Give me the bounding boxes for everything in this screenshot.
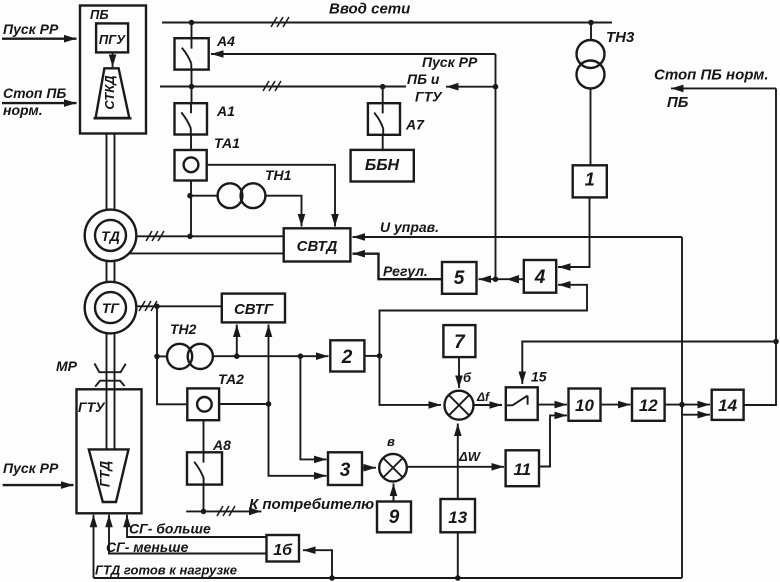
node: junction K potrebitelyu — [201, 509, 207, 515]
svg-text:норм.: норм. — [3, 102, 43, 118]
wire: block14 output up right edge to Stop PB arrow — [744, 88, 776, 405]
shaft TG to GTU box — [107, 333, 115, 449]
wire: TH2 line to block2 — [213, 355, 329, 357]
wire: vertical x495 down to 5/4 line — [495, 54, 497, 279]
node: junction top bus / A4 column — [189, 20, 195, 26]
svg-text:Стоп ПБ: Стоп ПБ — [3, 85, 66, 101]
svg-text:1б: 1б — [273, 542, 293, 559]
svg-text:ПБ: ПБ — [90, 7, 109, 22]
svg-text:7: 7 — [454, 332, 466, 353]
node: junction TH2 line / SVTG arm — [234, 353, 240, 359]
svg-text:СВТГ: СВТГ — [234, 301, 274, 318]
wire: TD to SVTD upper line — [136, 235, 284, 237]
wire: 3-phase slashes on second bus — [263, 81, 281, 91]
svg-text:ГТУ: ГТУ — [415, 89, 443, 105]
turbine GTD (trapezoid) — [89, 449, 129, 502]
box PB (outer unit) — [80, 6, 146, 134]
svg-text:А7: А7 — [405, 117, 425, 133]
wire: SG menshe line + arrow2 — [109, 515, 267, 554]
node: junction block2 output x379.5 — [377, 353, 383, 359]
svg-text:А8: А8 — [212, 437, 231, 453]
svg-text:9: 9 — [389, 507, 400, 528]
wire: Pusk RR arrow bottom — [3, 484, 74, 486]
svg-text:ТГ: ТГ — [102, 300, 121, 316]
current transformer TA2 — [187, 388, 219, 420]
wire: vertical x157 TG to TA2 — [157, 306, 187, 404]
node: junction TG line / x157 — [154, 304, 160, 310]
svg-text:3: 3 — [340, 460, 351, 481]
svg-text:12: 12 — [639, 396, 658, 415]
wire: second bus — [160, 86, 406, 88]
node: junction TA2 output — [266, 401, 272, 407]
svg-text:в: в — [387, 434, 395, 449]
wire: slashes K potrebitelyu — [217, 506, 235, 516]
svg-text:МР: МР — [56, 358, 78, 374]
transformer TH3 — [577, 23, 605, 166]
svg-text:СТКД: СТКД — [102, 75, 117, 110]
svg-text:СВТД: СВТД — [297, 238, 338, 255]
node: junction x495 on 4-5 line — [493, 276, 499, 282]
wire: U uprav line into SVTD — [353, 236, 683, 238]
svg-text:U управ.: U управ. — [380, 219, 439, 235]
block PGU — [96, 23, 128, 52]
svg-text:Пуск РР: Пуск РР — [3, 21, 59, 37]
shaft TD to TG — [107, 261, 115, 282]
wire: block13 bottom to bus — [457, 532, 459, 578]
block 9 — [377, 502, 411, 533]
node: junction right edge / block15 feed — [773, 339, 779, 345]
wire: block12 to block14 — [665, 404, 710, 406]
wire: bottom bus — [94, 577, 683, 579]
wire: x300 down to block3 upper input — [300, 356, 326, 459]
svg-text:СГ- больше: СГ- больше — [129, 521, 211, 537]
node: junction x682 on 12-14 line — [679, 402, 685, 408]
wire: feedback from x379.5 to block4 lower input — [380, 285, 588, 356]
wire: summer b output Δf to block15 — [474, 404, 503, 406]
wire: x379.5 down to summer b left input — [380, 356, 442, 405]
wire: block16 right input from bus — [303, 550, 332, 578]
svg-text:15: 15 — [531, 369, 547, 385]
wire: A4 column vertical segments — [190, 23, 193, 237]
node: junction TH2 line / x300 — [298, 353, 304, 359]
svg-text:К потребителю: К потребителю — [249, 496, 374, 513]
wire: bus up arrow1 into GTU box — [93, 515, 95, 578]
wire: block1 to block4 upper input — [558, 197, 590, 267]
svg-text:Δf: Δf — [476, 390, 490, 404]
svg-text:ББН: ББН — [365, 157, 400, 174]
voltage transformer TH2 — [157, 344, 213, 369]
wire: TA2 output to x268.5 — [219, 403, 268, 405]
svg-text:Ввод сети: Ввод сети — [329, 1, 410, 18]
coupling MR — [95, 364, 126, 387]
node: junction TD line / TA1 column — [187, 234, 193, 240]
svg-text:ПБ: ПБ — [667, 94, 689, 111]
svg-text:ГТУ: ГТУ — [78, 399, 106, 415]
node: junction x157 / TH2 — [154, 354, 160, 360]
svg-text:Регул.: Регул. — [383, 263, 428, 279]
box GTU — [77, 389, 142, 513]
svg-text:10: 10 — [575, 396, 594, 415]
svg-text:ТН3: ТН3 — [606, 29, 635, 46]
svg-text:5: 5 — [454, 268, 465, 289]
wire: summer v output ΔW to block11 — [407, 466, 504, 468]
svg-text:ГТД готов к нагрузке: ГТД готов к нагрузке — [95, 563, 237, 578]
block 5 — [442, 262, 477, 294]
svg-text:Пуск РР: Пуск РР — [3, 460, 59, 476]
motor TD — [85, 210, 137, 262]
wire: x268.5 down to block3 lower input — [269, 404, 327, 476]
wire: Stop PB arrow from right edge vertical — [671, 87, 776, 89]
node: junction second bus / A1 column — [189, 84, 195, 90]
svg-text:ПГУ: ПГУ — [99, 32, 126, 47]
wire: block2 output — [364, 355, 379, 357]
wire: K potrebitelyu arrow — [186, 510, 261, 512]
node: junction x495 second-bus arrow — [493, 84, 499, 90]
svg-text:13: 13 — [448, 508, 467, 527]
wire: arrow up into SVTG left — [236, 325, 238, 357]
wire: 3-phase slashes on top bus — [271, 17, 289, 27]
wire: block15 output to block10 — [538, 404, 567, 406]
block 12 — [632, 389, 665, 421]
block 11 — [506, 450, 539, 486]
generator TG — [85, 282, 137, 334]
summer v (circle with X) — [379, 454, 407, 482]
wire: block13 up into summer b — [457, 424, 459, 500]
block 14 — [712, 390, 744, 420]
block BBN — [351, 150, 414, 182]
block 16 — [267, 535, 300, 562]
svg-text:14: 14 — [718, 396, 737, 415]
svg-text:ТН2: ТН2 — [170, 321, 197, 337]
block SVTG — [222, 294, 285, 323]
node: junction bus / block16 feed — [329, 575, 335, 581]
block 13 — [441, 499, 476, 532]
block 10 — [569, 389, 601, 421]
shaft PB box to TD — [107, 134, 115, 210]
wire: SG bolshe line + arrow3 — [127, 515, 267, 537]
node: junction top bus / TH3 — [588, 20, 594, 26]
wire: Pusk RR arrow top — [2, 38, 77, 40]
block 15 (relay contact) — [506, 387, 538, 420]
svg-text:б: б — [463, 370, 472, 385]
svg-text:ТА2: ТА2 — [218, 371, 244, 387]
wire: TH1 output to SVTD top — [265, 196, 301, 227]
svg-text:11: 11 — [513, 460, 531, 479]
wire: 3-phase slashes TD line — [146, 231, 164, 241]
wire: TG to SVTG — [136, 305, 222, 307]
wire: block11 output to block10 lower input — [539, 415, 567, 466]
wire: block10 to block12 — [601, 404, 631, 406]
block 2 — [330, 340, 364, 371]
svg-text:ГТД: ГТД — [98, 461, 113, 488]
svg-text:А1: А1 — [216, 103, 235, 119]
wire: arrow "Пуск РР ПБ и ГТУ" pointing left — [446, 86, 496, 88]
wire: block4 to block5 with two arrowheads — [479, 275, 524, 283]
svg-text:ТД: ТД — [101, 228, 120, 244]
block SVTD — [284, 228, 351, 261]
svg-text:ТН1: ТН1 — [265, 167, 292, 183]
svg-text:А4: А4 — [216, 33, 235, 49]
wire: top bus "Ввод сети" — [162, 22, 612, 24]
current transformer TA1 — [175, 150, 207, 181]
wire: branch into block14 lower input — [682, 414, 710, 416]
wire: arrow into A4 from vertical x495 — [211, 53, 496, 55]
node: junction bus / block13 — [455, 575, 461, 581]
wire: PGU down arrow to STKD — [112, 52, 114, 67]
block 7 — [443, 325, 475, 357]
breaker A7 — [368, 84, 400, 150]
block 1 — [573, 165, 607, 197]
svg-text:1: 1 — [585, 170, 595, 190]
svg-text:СГ- меньше: СГ- меньше — [106, 539, 189, 555]
svg-text:2: 2 — [341, 347, 353, 368]
svg-text:ТА1: ТА1 — [214, 135, 240, 151]
breaker A8 — [187, 420, 222, 511]
breaker A1 — [175, 103, 208, 134]
wire: Regul line block5 to SVTD — [353, 254, 443, 280]
wire: block3 output into summer v — [362, 467, 376, 469]
wire: slashes TG line — [139, 301, 157, 311]
voltage transformer TH1 — [191, 183, 265, 208]
svg-text:Пуск РР: Пуск РР — [422, 54, 478, 70]
svg-text:ΔW: ΔW — [458, 449, 482, 464]
svg-text:4: 4 — [534, 267, 546, 288]
wire: feed line into block15 top from right edge — [522, 342, 776, 385]
wire: TA1 output to SVTD top (right arm) — [207, 165, 335, 227]
wire: block7 output down into summer b — [458, 357, 460, 388]
wire: TD to SVTD lower line — [129, 252, 284, 254]
wire: arrow up into SVTG right from TA2 junction — [268, 325, 270, 405]
breaker A4 — [175, 38, 209, 69]
svg-text:Стоп ПБ норм.: Стоп ПБ норм. — [654, 67, 769, 84]
node: junction TA1-TH1 — [187, 193, 193, 199]
block 3 — [328, 452, 362, 485]
wire: vertical x682 U uprav down to bottom bus — [681, 237, 683, 578]
wire: block9 up into summer v — [393, 484, 395, 502]
turbine STKD (trapezoid) — [94, 68, 132, 118]
svg-text:ПБ и: ПБ и — [407, 71, 440, 87]
summer b (circle with X) — [445, 391, 474, 420]
wire: Stop PB arrow top — [2, 102, 77, 104]
block 4 — [524, 260, 556, 293]
